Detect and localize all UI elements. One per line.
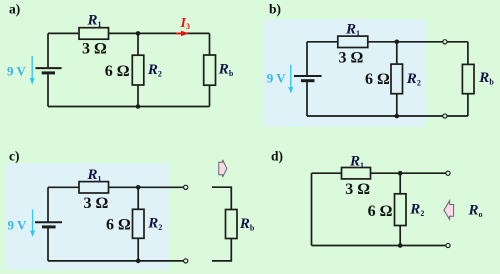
junction dot top <box>398 171 403 176</box>
battery long plate <box>36 67 62 69</box>
port terminal top <box>443 40 447 44</box>
svg-text:c): c) <box>9 149 20 164</box>
svg-text:d): d) <box>271 148 283 163</box>
junction dot bottom <box>136 259 141 264</box>
wire left lower <box>306 81 308 116</box>
highlight box c <box>6 163 169 270</box>
port terminal bottom <box>184 259 188 263</box>
resistor R2 box <box>133 209 145 238</box>
battery short plate <box>42 71 55 74</box>
wire stub bottom <box>212 239 231 261</box>
battery current arrow (cyan) <box>30 56 35 85</box>
resistor R2 box <box>391 64 403 94</box>
resistor R1 box <box>79 28 109 40</box>
wire R2 bottom <box>137 85 139 107</box>
battery long plate <box>294 75 322 77</box>
block arrow (looking into port) <box>444 201 454 220</box>
resistor R2 box <box>132 55 144 85</box>
svg-text:3 Ω: 3 Ω <box>84 195 109 212</box>
wire top right to port <box>371 172 447 174</box>
port terminal top <box>184 185 188 189</box>
junction dot bottom <box>395 114 400 119</box>
current arrow I3 <box>176 32 183 34</box>
wire left upper <box>47 187 49 221</box>
wire R2 top <box>137 33 139 55</box>
svg-text:b): b) <box>269 1 281 16</box>
resistor Rb box <box>226 210 238 239</box>
svg-text:3 Ω: 3 Ω <box>82 40 107 57</box>
wire R2 bottom <box>396 94 398 116</box>
svg-text:6 Ω: 6 Ω <box>368 203 393 220</box>
wire top right to port <box>109 186 185 188</box>
wire right lower <box>209 85 211 106</box>
svg-text:9 V: 9 V <box>8 218 28 233</box>
wire left upper <box>306 42 308 76</box>
wire left lower <box>47 227 49 261</box>
resistor R1 box <box>342 168 371 179</box>
block arrow (pull-out marker) <box>219 160 227 177</box>
wire R2 bottom <box>137 238 139 261</box>
wire R2 bottom <box>399 226 401 246</box>
svg-text:6 Ω: 6 Ω <box>105 63 130 80</box>
wire right lower <box>467 94 469 116</box>
battery short plate <box>42 225 56 228</box>
resistor R1 box <box>338 36 368 47</box>
battery current arrow (cyan) <box>288 65 293 94</box>
battery short plate <box>301 79 315 82</box>
wire top left <box>307 41 338 43</box>
battery current arrow (cyan) <box>30 210 35 238</box>
wire right upper <box>467 42 469 65</box>
junction dot bottom <box>398 243 403 248</box>
port terminal bottom <box>443 114 447 118</box>
resistor R2 box <box>395 194 407 226</box>
wire top right to port <box>368 41 468 43</box>
wire R2 top <box>399 173 401 194</box>
svg-text:6 Ω: 6 Ω <box>106 216 131 233</box>
wire left lower (battery to bottom) <box>47 74 49 106</box>
junction dot top <box>136 185 141 190</box>
port terminal top <box>446 171 450 175</box>
battery long plate <box>35 221 62 223</box>
svg-text:6 Ω: 6 Ω <box>365 71 390 88</box>
wire top left (battery to R1) <box>48 32 79 34</box>
junction dot top (R1/R2/Rb node) <box>136 31 141 36</box>
resistor Rb box <box>462 64 474 93</box>
highlight box b <box>264 19 426 127</box>
svg-text:3 Ω: 3 Ω <box>345 181 370 198</box>
wire R2 top <box>396 42 398 64</box>
wire left <box>311 173 313 245</box>
port terminal bottom <box>446 243 450 247</box>
svg-text:a): a) <box>9 1 20 16</box>
detached load branch (Rb) <box>212 187 237 261</box>
wire bottom <box>48 106 210 108</box>
resistor Rb box <box>204 55 216 85</box>
junction dot bottom <box>136 104 141 109</box>
wire bottom <box>48 260 184 262</box>
wire left upper (to battery) <box>47 33 49 67</box>
wire right upper <box>209 33 211 55</box>
svg-text:9 V: 9 V <box>7 64 27 79</box>
wire bottom <box>312 245 447 247</box>
wire R2 top <box>137 187 139 209</box>
svg-text:3 Ω: 3 Ω <box>339 50 364 67</box>
wire top left <box>48 186 79 188</box>
wire top left <box>312 172 342 174</box>
wire top right (R1 to Rb) <box>109 32 210 34</box>
wire bottom <box>307 115 468 117</box>
wire stub top <box>212 187 231 209</box>
junction dot top <box>395 40 400 45</box>
resistor R1 box <box>79 182 109 193</box>
svg-text:9 V: 9 V <box>267 71 287 86</box>
